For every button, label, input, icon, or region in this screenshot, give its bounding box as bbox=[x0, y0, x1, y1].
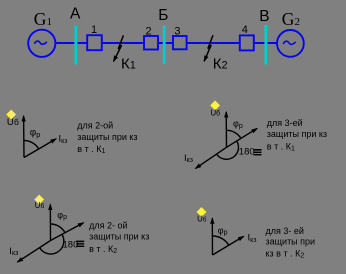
bus A bbox=[74, 26, 77, 65]
marker symbol (yellow diamond) D1 bbox=[6, 110, 16, 120]
svg-text:защиты при кз: защиты при кз bbox=[77, 132, 137, 142]
svg-text:4: 4 bbox=[242, 24, 248, 36]
svg-text:180: 180 bbox=[239, 147, 255, 158]
svg-text:защиты при кз: защиты при кз bbox=[267, 129, 327, 139]
breaker 1 bbox=[87, 35, 102, 50]
svg-text:Uб: Uб bbox=[35, 201, 45, 210]
phasor Ikz arrow D1 bbox=[24, 139, 56, 158]
phasor Ub arrow D4 bbox=[211, 218, 213, 255]
degree bars D3 bbox=[76, 241, 84, 247]
svg-text:для 3- ей: для 3- ей bbox=[266, 226, 304, 236]
svg-text:защиты при: защиты при bbox=[266, 236, 316, 246]
svg-text:3: 3 bbox=[174, 25, 180, 37]
degree bars D2 bbox=[254, 149, 262, 155]
svg-text:А: А bbox=[70, 6, 81, 23]
breaker 3 bbox=[173, 36, 187, 49]
marker symbol (yellow diamond) D2 bbox=[210, 101, 220, 111]
breaker 4 bbox=[240, 35, 254, 50]
phasor Ikz arrow SW D3 bbox=[18, 241, 51, 263]
svg-text:для 3-ей: для 3-ей bbox=[267, 118, 303, 128]
phasor Ikz arrow D4 bbox=[213, 236, 244, 255]
fault K1 bbox=[114, 35, 124, 61]
svg-text:кз в т . К2: кз в т . К2 bbox=[266, 249, 305, 260]
svg-text:защиты при кз: защиты при кз bbox=[89, 231, 149, 241]
svg-text:в т . К2: в т . К2 bbox=[89, 244, 117, 255]
phasor line NE D2 bbox=[227, 129, 258, 148]
svg-text:для 2-ой: для 2-ой bbox=[77, 120, 113, 130]
angle arc 180 D2 bbox=[217, 141, 239, 159]
angle arc phi D3 bbox=[51, 224, 66, 233]
svg-text:В: В bbox=[259, 8, 269, 25]
angle arc D4 bbox=[213, 236, 229, 245]
svg-text:для 2- ой: для 2- ой bbox=[89, 220, 127, 230]
phasor Ub arrow D1 bbox=[23, 116, 25, 158]
wire bbox=[42, 42, 290, 44]
phasor line NE D3 bbox=[51, 223, 84, 241]
svg-text:Б: Б bbox=[158, 7, 168, 24]
bus C (В) bbox=[264, 25, 267, 65]
svg-text:в т . К1: в т . К1 bbox=[267, 141, 295, 152]
svg-text:Uб: Uб bbox=[197, 214, 207, 223]
phasor Ikz arrow SW D2 bbox=[196, 147, 227, 168]
svg-text:Uб: Uб bbox=[7, 117, 19, 128]
fault K2 bbox=[204, 35, 213, 61]
breaker 2 bbox=[144, 36, 158, 50]
svg-text:2: 2 bbox=[146, 25, 152, 37]
generator G1 bbox=[28, 30, 55, 57]
svg-text:в т . К1: в т . К1 bbox=[77, 144, 105, 155]
marker symbol (yellow diamond) D4 bbox=[197, 207, 207, 217]
phasor Ub arrow D2 bbox=[225, 112, 227, 147]
svg-text:Uб: Uб bbox=[210, 108, 220, 117]
phasor Ub arrow D3 bbox=[49, 205, 51, 241]
svg-text:180: 180 bbox=[63, 240, 79, 251]
angle arc phi D2 bbox=[227, 130, 242, 138]
svg-text:φр: φр bbox=[30, 127, 41, 139]
angle arc 180 D3 bbox=[40, 234, 64, 254]
svg-text:1: 1 bbox=[91, 24, 97, 36]
angle arc D1 bbox=[24, 141, 39, 150]
generator G2 bbox=[277, 30, 304, 57]
bus B (Б) bbox=[163, 26, 166, 65]
marker symbol (yellow diamond) D3 bbox=[34, 195, 44, 205]
